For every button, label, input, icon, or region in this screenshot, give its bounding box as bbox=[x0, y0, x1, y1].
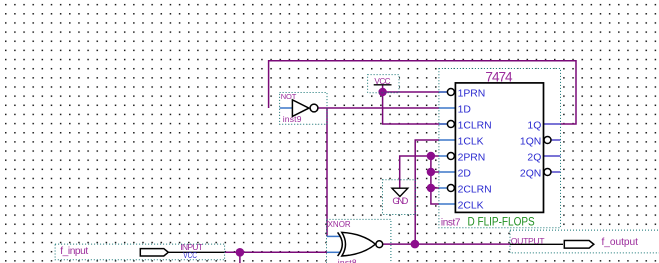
svg-text:OUTPUT: OUTPUT bbox=[511, 236, 545, 246]
svg-text:1PRN: 1PRN bbox=[458, 89, 486, 100]
svg-text:2QN: 2QN bbox=[520, 169, 541, 180]
svg-text:1Q: 1Q bbox=[527, 121, 541, 132]
svg-text:GND: GND bbox=[392, 196, 408, 207]
svg-text:2D: 2D bbox=[458, 169, 471, 180]
svg-text:inst8: inst8 bbox=[338, 257, 357, 263]
svg-text:inst7: inst7 bbox=[441, 218, 461, 229]
svg-text:1D: 1D bbox=[458, 105, 471, 116]
svg-text:7474: 7474 bbox=[485, 69, 513, 84]
svg-text:inst9: inst9 bbox=[283, 114, 302, 124]
svg-text:1CLK: 1CLK bbox=[458, 137, 484, 148]
svg-text:2PRN: 2PRN bbox=[458, 153, 486, 164]
svg-text:VCC: VCC bbox=[183, 251, 197, 260]
svg-text:2CLK: 2CLK bbox=[458, 201, 484, 212]
svg-text:1CLRN: 1CLRN bbox=[458, 121, 492, 132]
svg-text:2Q: 2Q bbox=[527, 153, 541, 164]
svg-text:XNOR: XNOR bbox=[328, 220, 351, 229]
svg-text:D FLIP-FLOPS: D FLIP-FLOPS bbox=[468, 215, 535, 229]
svg-text:NOT: NOT bbox=[281, 92, 297, 101]
svg-text:1QN: 1QN bbox=[520, 137, 541, 148]
svg-text:f_input: f_input bbox=[60, 246, 88, 257]
svg-text:f_output: f_output bbox=[602, 237, 639, 248]
svg-text:2CLRN: 2CLRN bbox=[458, 185, 492, 196]
svg-text:VCC: VCC bbox=[374, 77, 390, 86]
